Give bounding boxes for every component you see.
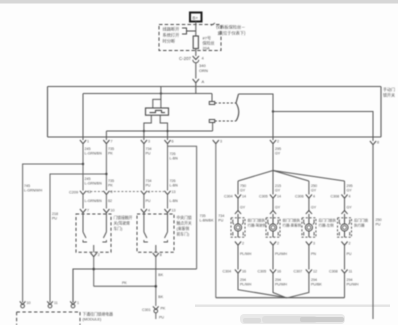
wire pin7 down with branch [50,144,106,303]
actuator column 1 (front driver) [223,181,288,298]
passenger door lock switch dashed box [137,213,174,253]
svg-text:294: 294 [240,278,246,282]
svg-text:6: 6 [172,140,174,144]
svg-text:仪表板保险丝－: 仪表板保险丝－ [216,24,245,31]
svg-text:(乘客侧: (乘客侧 [177,226,190,231]
svg-text:14: 14 [277,195,281,199]
svg-text:4: 4 [313,195,315,199]
svg-text:245: 245 [85,147,91,151]
svg-text:车门): 车门) [114,226,124,231]
svg-text:745: 745 [24,184,30,188]
svg-text:L-GRN/BN: L-GRN/BN [85,152,103,156]
svg-text:250: 250 [376,218,382,222]
wire fuse to C-207 [195,49,197,57]
svg-text:245: 245 [85,177,91,181]
svg-text:C301: C301 [142,308,151,312]
svg-text:295: 295 [275,147,281,151]
svg-text:C-207: C-207 [179,56,192,61]
svg-text:PU: PU [159,316,164,320]
armature [236,94,239,121]
top gray band [0,0,398,4]
svg-text:C308: C308 [331,195,340,199]
svg-text:GY: GY [347,189,353,193]
passenger switch output pin 8 [153,253,162,306]
contact 2 lower [209,120,236,132]
svg-text:250: 250 [311,184,317,188]
svg-text:11: 11 [88,190,92,194]
svg-text:PU: PU [146,199,151,203]
slider switch body [146,108,169,115]
pin 7 [103,140,114,156]
svg-text:4: 4 [148,209,150,213]
svg-text:2: 2 [242,242,244,246]
svg-text:20A: 20A [203,46,210,51]
svg-text:2: 2 [98,253,100,257]
instrument panel fuse block label [211,23,246,37]
contact 1 upper [209,94,236,105]
svg-text:735: 735 [200,214,206,218]
svg-text:62: 62 [108,199,112,203]
svg-text:734: 734 [218,214,224,218]
fuse F7 20A [193,35,214,51]
labels below C209 [85,199,179,203]
svg-text:C305: C305 [258,270,267,274]
svg-text:3: 3 [148,140,150,144]
svg-text:GY: GY [275,189,281,193]
svg-text:16: 16 [242,270,246,274]
svg-text:L-GRN/WH: L-GRN/WH [24,189,43,193]
long wire to pin 8 [273,112,373,142]
passenger switch label [177,215,192,237]
connector C-207 [179,56,205,63]
svg-text:4: 4 [349,195,351,199]
svg-text:门锁接触开: 门锁接触开 [114,215,133,220]
svg-text:GY: GY [347,206,353,210]
wires C209 to door switch connectors [83,195,168,209]
svg-text:PL/WH: PL/WH [240,252,252,256]
inline connector C209 [69,190,176,195]
svg-text:前车门): 前车门) [177,232,190,237]
svg-text:PU/BK: PU/BK [311,283,322,287]
svg-text:执行器: 执行器 [354,223,365,228]
svg-text:GY: GY [311,206,317,210]
motor return bus [216,297,345,299]
svg-text:294: 294 [347,278,353,282]
wire label 340 ORN [196,63,208,79]
driver switch output pin 2 [91,253,100,286]
driver door lock switch dashed box [76,213,111,253]
svg-text:8: 8 [377,141,379,145]
wire from B+ down to fuse [195,22,197,37]
inner bottom bus [106,130,212,132]
svg-text:触点开关: 触点开关 [177,221,192,226]
svg-text:295: 295 [347,184,353,188]
svg-text:C305: C305 [259,195,268,199]
svg-text:PN: PN [311,252,316,256]
motor feed distribution [238,144,345,181]
battery feed box B+ [190,13,202,22]
node pin2/pin8 branch [272,110,274,112]
svg-text:GY: GY [275,206,281,210]
svg-text:行器-左侧: 行器-左侧 [319,223,335,228]
pin8 long wire [372,145,374,319]
svg-text:系统打开: 系统打开 [163,32,180,39]
wire pin1 down with branch to far-left [23,144,83,303]
labels between drops [200,214,225,223]
svg-text:2: 2 [277,140,279,144]
svg-text:10: 10 [111,209,115,213]
svg-text:A: A [202,79,205,84]
svg-text:L-BN: L-BN [170,184,179,188]
svg-text:PU: PU [376,223,381,227]
svg-text:C304: C304 [223,270,232,274]
svg-text:C307: C307 [294,270,303,274]
svg-text:时分断: 时分断 [163,38,176,45]
svg-text:PK: PK [108,184,113,188]
svg-text:GY: GY [311,189,317,193]
svg-text:14: 14 [242,195,246,199]
svg-text:BK: BK [158,295,163,299]
svg-text:BK: BK [158,273,163,277]
svg-text:PU/WH: PU/WH [347,283,359,287]
bottom connector pins to relay [20,301,79,308]
svg-text:16: 16 [277,270,281,274]
bottom watermark smear [195,305,390,325]
svg-text:734: 734 [146,147,152,151]
wires pin3 pin6 down [144,144,168,191]
svg-text:PK: PK [161,307,166,311]
pin 8 [370,141,379,145]
svg-text:3: 3 [220,140,222,144]
svg-text:8: 8 [160,253,162,257]
svg-text:PL/WH: PL/WH [240,283,252,287]
svg-text:GY: GY [275,152,281,156]
svg-text:PU: PU [218,219,223,223]
svg-text:PU: PU [52,217,57,221]
slider switch feed [153,87,161,109]
actuator column 2 (front passenger) [258,181,302,298]
wire color tags near junctions [122,273,164,299]
pin1 riser [82,94,84,141]
connector A into switch [193,79,205,94]
svg-text:12: 12 [313,270,317,274]
motor M4 rear-right door lock actuator [338,218,352,237]
svg-text:L-BN: L-BN [170,199,179,203]
svg-text:C308: C308 [329,270,338,274]
inner feed rail [83,93,212,95]
lower bus wire [73,269,197,303]
svg-text:前门门锁执: 前门门锁执 [283,218,301,223]
svg-text:手动门: 手动门 [383,86,395,92]
motor M1 front-driver door lock actuator [231,218,245,237]
svg-text:294: 294 [311,278,317,282]
svg-text:735: 735 [108,179,114,183]
svg-text:1: 1 [87,140,89,144]
svg-text:前门门锁执: 前门门锁执 [248,218,266,223]
svg-text:PU: PU [347,252,352,256]
bracket from text to fuse wire [182,28,187,34]
label on pin1 wire above C209 [85,177,115,188]
svg-text:线路断开: 线路断开 [163,26,180,33]
switch box name label [383,86,395,98]
svg-text:B+: B+ [193,16,199,21]
svg-text:C304: C304 [224,195,233,199]
svg-text:PU/WH: PU/WH [275,252,287,256]
actuator column 3 (rear left) [288,181,336,298]
svg-text:2: 2 [277,242,279,246]
branch from pin6 to right drop [168,146,197,269]
svg-text:218: 218 [52,212,58,216]
svg-text:C209: C209 [69,191,78,195]
svg-text:(MODULE): (MODULE) [83,318,103,322]
svg-text:1: 1 [77,301,79,305]
door lock relay dashed box (bottom left) [17,312,113,325]
svg-text:行器-乘客侧: 行器-乘客侧 [283,223,302,228]
armature feed to pin2 [239,94,274,140]
pin 2 (motor feed) [270,140,281,156]
svg-text:后门门锁: 后门门锁 [354,218,368,223]
svg-text:726: 726 [170,152,176,156]
svg-text:13: 13 [172,209,176,213]
pin7 riser [105,131,107,140]
fuse box label text (left block) [163,26,180,45]
svg-text:中央门锁: 中央门锁 [177,215,192,220]
svg-text:GY: GY [240,189,246,193]
svg-text:7: 7 [111,140,113,144]
driver switch label [114,215,133,231]
svg-text:ORN: ORN [199,68,208,73]
actuator column 4 (rear right) [329,181,368,298]
far-left wire label [24,184,58,221]
svg-text:L-GRN/BN: L-GRN/BN [85,199,103,203]
svg-text:215: 215 [275,184,281,188]
svg-text:10: 10 [27,301,31,305]
svg-text:后门门锁执: 后门门锁执 [319,218,337,223]
master door-lock switch box outline [48,87,382,138]
svg-text:行器-驾驶侧: 行器-驾驶侧 [248,223,267,228]
svg-text:750: 750 [240,184,246,188]
svg-text:盒(位于仪表下): 盒(位于仪表下) [218,30,247,37]
svg-text:PU: PU [146,152,151,156]
svg-text:PU/WH: PU/WH [275,283,287,287]
labels on pin3/pin6 wires [146,179,179,188]
svg-text:C306: C306 [295,195,304,199]
motor M3 rear-left door lock actuator [302,218,316,237]
pin 3 [141,140,152,156]
svg-text:734: 734 [146,179,152,183]
svg-text:2: 2 [349,242,351,246]
svg-text:11: 11 [54,301,58,305]
svg-text:关(驾驶席: 关(驾驶席 [114,221,131,226]
svg-text:下通往门锁继电器: 下通往门锁继电器 [83,312,114,317]
bottom center connector C301 [142,306,166,319]
svg-text:L-GRN/BN: L-GRN/BN [85,182,103,186]
svg-text:4: 4 [148,190,150,194]
pin 5 (motor return) [213,140,222,144]
motor M2 front-passenger door lock actuator [266,218,280,237]
node on rail [160,92,162,94]
slider poles down [144,115,168,140]
motor return drop [215,144,217,298]
svg-text:PU: PU [146,184,151,188]
svg-text:PK: PK [108,152,113,156]
pin 1 [80,140,102,156]
svg-text:11: 11 [349,270,353,274]
link wire to passenger switch drop [94,285,156,287]
svg-text:735: 735 [108,147,114,151]
svg-text:294: 294 [275,278,281,282]
svg-text:锁开关: 锁开关 [383,92,395,98]
svg-text:726: 726 [170,179,176,183]
door switch pin row [80,209,176,213]
svg-text:PK: PK [122,281,127,285]
svg-text:L-BN: L-BN [170,157,179,161]
svg-text:GY: GY [240,206,246,210]
svg-text:7: 7 [87,209,89,213]
svg-text:3: 3 [313,242,315,246]
pin 6 [164,140,178,161]
fuse box dashed outline [159,25,221,51]
svg-text:L-BN/BK: L-BN/BK [200,219,215,223]
svg-text:3: 3 [111,190,113,194]
svg-text:13: 13 [172,190,176,194]
